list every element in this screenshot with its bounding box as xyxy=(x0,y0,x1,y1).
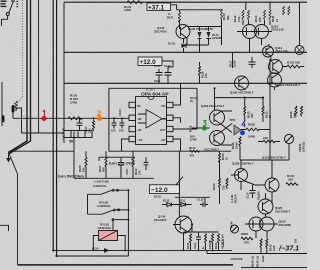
wire: +37 box to regulator xyxy=(171,5,222,12)
node: R114 label xyxy=(190,96,197,103)
node: -12.0 voltage label xyxy=(150,177,184,195)
resistor R118 xyxy=(199,62,201,83)
node: pin 4 (left, -VS) xyxy=(129,136,142,142)
wire: node to block xyxy=(9,150,75,152)
wire: step to output rail xyxy=(207,250,307,253)
resistor R119 xyxy=(190,150,200,152)
wire: mid feed bus xyxy=(215,98,264,106)
transistor Q103 (lower of pair) xyxy=(210,131,225,146)
resistor R132 xyxy=(205,234,207,251)
resistor R128 xyxy=(239,137,241,161)
resistor R123 xyxy=(262,106,264,122)
transistor Q112 (dual pair) xyxy=(245,217,278,238)
diode D110 xyxy=(92,246,113,252)
node: R110/C107 labels xyxy=(125,168,142,175)
resistor R120 xyxy=(248,10,250,21)
wire: switch common xyxy=(87,194,89,214)
wire: lower horizontal bus xyxy=(99,151,231,161)
node: R107 label xyxy=(98,165,106,172)
node: Q110 label xyxy=(271,25,284,32)
node: C110 label xyxy=(246,191,261,200)
transistor Q118 xyxy=(268,73,282,90)
node: R112/R120 labels xyxy=(233,15,241,22)
resistor R103 xyxy=(93,117,95,131)
switch SW101 xyxy=(2,2,14,26)
wire: pin8 to +12 rail xyxy=(173,83,181,105)
wire: right mid bus xyxy=(240,159,289,161)
node: pin 3 (left, +IN) xyxy=(129,126,141,132)
transistor Q120 xyxy=(258,193,273,217)
wire: input join xyxy=(12,110,14,118)
transistor Q110 (dual) xyxy=(237,25,272,53)
node: D143 D144 labels xyxy=(188,27,221,40)
node: R141 value label xyxy=(124,5,132,12)
wire: base feed left of Q102 xyxy=(192,127,210,129)
resistor R300 xyxy=(241,128,270,131)
wire: Q144 emitter drop xyxy=(184,225,193,251)
transistor Q144 xyxy=(173,216,193,233)
switch S101 (relay contact) xyxy=(88,189,129,194)
node: test point 4 (blue) xyxy=(240,121,245,135)
resistor R126 xyxy=(295,106,297,117)
node: R122 label xyxy=(247,111,255,118)
node: bottom-right small labels xyxy=(230,221,298,267)
resistor R121 xyxy=(269,10,271,21)
resistor R102 (input shunt) xyxy=(15,101,18,111)
capacitor C105 xyxy=(120,117,125,128)
transistor Q106 xyxy=(235,76,249,90)
resistor R107 xyxy=(105,151,107,178)
resistor R137 (100) xyxy=(258,136,280,143)
capacitor C141 xyxy=(156,69,163,83)
node: test point 2 (orange) xyxy=(97,111,102,121)
wire: left block edge xyxy=(1,82,3,126)
wire: dotted vertical boundary xyxy=(14,0,23,107)
node: R172 label xyxy=(222,13,230,20)
transistor Q108 xyxy=(231,169,248,182)
node: left-of-ACP vertical label xyxy=(221,239,225,248)
node: R117 label xyxy=(229,60,237,67)
node: test point 3 (green) xyxy=(202,121,207,131)
op-amp IC101 xyxy=(136,97,167,145)
capacitor C101 xyxy=(77,117,83,130)
resistor R117 pair top-right corner xyxy=(283,6,285,15)
wire: ground node to lower-left rail xyxy=(9,154,18,265)
resistor R110 xyxy=(132,151,134,178)
node: R105 label xyxy=(78,165,86,172)
switch S102 (relay contact) xyxy=(88,209,129,214)
wire: pin5 stub xyxy=(173,139,181,151)
node: R144/R145 labels xyxy=(269,244,277,251)
wire: feedback loop right drop xyxy=(196,88,198,129)
capacitor C104 xyxy=(112,117,117,128)
wire: top-right feed drops xyxy=(246,2,300,45)
resistor R105 xyxy=(85,151,87,178)
capacitor C110 xyxy=(250,185,256,198)
transistor Q142 xyxy=(176,20,190,45)
resistor R130 xyxy=(283,61,305,68)
node: R129 label xyxy=(212,183,226,190)
node: VR102 label xyxy=(298,142,306,152)
node: Q120 label xyxy=(275,206,291,214)
diode D112 xyxy=(162,199,176,207)
resistor R125 xyxy=(219,151,221,178)
diode D141 xyxy=(181,39,186,53)
node: R123 label xyxy=(265,111,273,118)
wire: diode bottoms xyxy=(184,45,209,52)
capacitor C144 xyxy=(249,57,256,68)
wire: Q102 collector feed xyxy=(214,88,216,110)
node: Q102 label xyxy=(201,104,225,152)
node: Q144 label xyxy=(154,215,167,223)
wire: horizontal at y=133 xyxy=(22,132,65,134)
node: R140 label xyxy=(287,174,295,182)
node: junction dots bottom bus xyxy=(183,249,214,251)
node: junction dots mid bus xyxy=(213,82,271,98)
node: pin 7 (right, +VS) xyxy=(160,115,173,121)
wire: cross-coupling xyxy=(222,111,233,145)
resistor R142 (series, vertical) xyxy=(178,12,180,24)
resistor R131 xyxy=(190,234,192,251)
wire: main input wire xyxy=(13,117,129,119)
wire: left bus line D xyxy=(52,0,54,250)
wire: relay section right drop xyxy=(127,190,129,256)
capacitor C107 xyxy=(118,157,124,178)
node: input terminal text xyxy=(1,1,18,8)
wire: Q144 feed xyxy=(178,151,180,217)
capacitor C112 xyxy=(197,198,208,208)
wire: mid-bottom connector xyxy=(175,197,210,204)
node: F1 R141 label xyxy=(167,12,174,20)
transistor Q114 xyxy=(263,46,274,57)
node: junction dots lower rails xyxy=(52,249,126,257)
wire: output pin to feedback xyxy=(173,128,197,130)
diode D111 xyxy=(176,199,192,207)
node: R113/R121 labels xyxy=(254,15,279,22)
capacitor C108 xyxy=(144,157,149,170)
node: R119 label xyxy=(189,146,196,158)
wire: left bus line E xyxy=(56,0,58,256)
diode D144 (zener) xyxy=(206,32,211,45)
wire: component row top bus xyxy=(184,231,219,233)
wire: left bus line B xyxy=(10,0,31,154)
node: R128 label xyxy=(231,142,239,149)
lamp PL101 xyxy=(295,46,304,55)
wire: main block left edge xyxy=(63,2,65,143)
wire: bottom-right return rail xyxy=(241,267,307,269)
resistor R127 xyxy=(301,106,303,117)
node: +37.1 voltage label xyxy=(147,3,171,11)
resistor R140 xyxy=(286,183,298,185)
trimmer VR102 xyxy=(284,134,293,160)
transistor Q116 xyxy=(269,58,283,74)
transistor Q113 xyxy=(265,160,279,204)
node: C101/R103 labels (vertical) xyxy=(62,126,92,140)
trimmer VR103 xyxy=(231,225,239,233)
wire: left bus line C xyxy=(38,0,40,133)
wire: right long drop xyxy=(269,59,271,160)
node: Q142 label xyxy=(154,26,167,34)
node: R300 label xyxy=(248,123,256,139)
node: R127A label xyxy=(230,194,238,203)
wire: +12 label to decoupling caps xyxy=(162,61,173,69)
wire: top rail +37V xyxy=(64,1,307,3)
ground xyxy=(6,153,11,163)
wire: relay coil connections xyxy=(93,220,125,251)
node: pin 2 (left, -IN) xyxy=(129,115,141,121)
wire: resistor-to-Q110 stubs xyxy=(243,21,270,25)
node: pin 8 (right, NC) xyxy=(162,102,173,108)
wire: second rail xyxy=(64,51,307,53)
node: junction dots relay column xyxy=(127,189,129,220)
resistor R122 xyxy=(244,106,246,122)
wire: left bottom stub xyxy=(0,225,9,231)
node: pin 5 (right, NC) xyxy=(162,136,173,142)
node: TP6 test point xyxy=(230,118,242,135)
node: R116 label xyxy=(189,125,197,141)
node: pin 6 (right, OUT) xyxy=(160,126,173,132)
node: R125 label xyxy=(221,153,229,160)
transistor Q102 (upper of pair) xyxy=(210,110,225,125)
node: RY102 contact label xyxy=(97,201,111,209)
resistor R133 xyxy=(212,234,214,251)
node: test point 1 (red) xyxy=(42,110,47,121)
wire: third rail +12V xyxy=(64,82,307,84)
wire: bottom long rail xyxy=(18,264,234,266)
wire: pin4 drop xyxy=(122,139,130,151)
resistor R112 xyxy=(242,10,244,21)
node: RY102 coil label xyxy=(98,223,112,231)
resistor R172 xyxy=(221,9,223,45)
node: pin 1 (left, NC) xyxy=(129,102,141,108)
node: +12.0 voltage label xyxy=(138,57,162,66)
wire: lower-left block edge xyxy=(73,132,75,179)
wire: Q142 emitter bus xyxy=(187,27,222,32)
wire: lower rail B xyxy=(57,255,129,257)
resistor R145 xyxy=(266,239,268,254)
node: component row labels xyxy=(186,234,225,249)
resistor R129 xyxy=(219,161,221,204)
wire: Q108 collector drop xyxy=(240,160,242,190)
capacitor C142 xyxy=(165,69,172,83)
wire: feedback loop left drop xyxy=(108,88,110,151)
wire: left bus line A xyxy=(9,0,28,153)
node: Q112 label xyxy=(279,220,292,228)
wire: feedback loop top xyxy=(109,87,197,89)
node: R101 label xyxy=(70,94,78,105)
resistor R139 (240) xyxy=(241,237,253,244)
node: C104/C105 labels xyxy=(111,109,124,133)
node: C141/C142 labels xyxy=(154,64,171,83)
node: Q114 label xyxy=(275,46,288,53)
wire: pin7 supply stub xyxy=(173,118,181,123)
resistor R113 xyxy=(264,10,266,21)
wire: Q108 base diagonal to Q113 xyxy=(245,181,265,185)
relay RY102 (coil, highlighted) xyxy=(99,231,118,241)
resistor R141 (inline on top rail) xyxy=(127,1,143,4)
potentiometer VR101 (5K) xyxy=(64,131,92,144)
capacitor C113 xyxy=(196,232,201,250)
wire: block bottom rail xyxy=(74,177,154,179)
resistor R135 xyxy=(226,178,228,189)
wire: R102 to ground rail xyxy=(16,108,22,133)
resistor R144 xyxy=(260,239,262,254)
wire: lower rail A xyxy=(53,249,232,251)
diode D143 xyxy=(198,32,202,45)
node: IC101 designator xyxy=(141,88,169,98)
node: R126/R127 labels xyxy=(289,111,297,118)
node: R118 label xyxy=(201,71,209,78)
resistor R101 xyxy=(68,117,82,120)
wire: R117 column xyxy=(232,52,234,68)
resistor R134 xyxy=(218,234,220,251)
node: relay contact row 3 xyxy=(112,219,128,221)
